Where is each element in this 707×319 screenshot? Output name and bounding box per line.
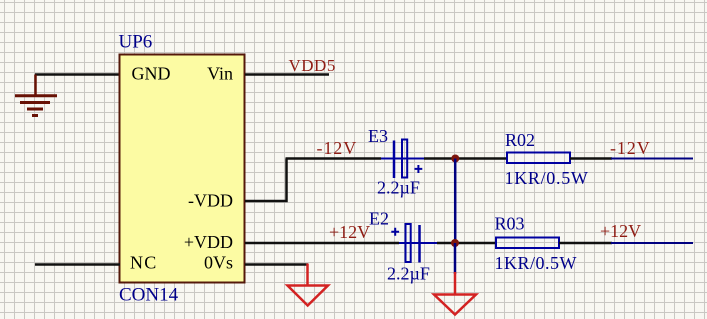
svg-text:-12V: -12V — [317, 138, 358, 158]
svg-text:2.2µF: 2.2µF — [377, 178, 420, 198]
wire Vin to VDD5 — [245, 73, 329, 76]
wire -VDD pin up to -12V row — [245, 159, 287, 202]
wire +12V stub navy — [611, 242, 693, 244]
power ground stem (right) — [454, 272, 457, 294]
wire R02 right — [570, 157, 612, 160]
capacitor E3 — [381, 140, 424, 179]
wire cap E3 to junction to R02 — [424, 157, 507, 160]
svg-text:1KR/0.5W: 1KR/0.5W — [495, 253, 578, 273]
junction node A (dot) — [451, 155, 459, 163]
wire vertical junction link — [454, 159, 457, 244]
resistor R03 — [496, 238, 559, 249]
wire -12V row left segment — [286, 157, 382, 160]
svg-text:-VDD: -VDD — [188, 191, 233, 211]
ground — [15, 75, 57, 116]
svg-text:R03: R03 — [495, 214, 525, 234]
wire NC pin — [35, 263, 120, 266]
wire junction B down — [454, 243, 457, 274]
power ground arrow (left) — [288, 286, 329, 306]
svg-text:R02: R02 — [505, 130, 535, 150]
svg-text:+12V: +12V — [600, 221, 641, 241]
wire GND pin to ground — [35, 73, 120, 76]
capacitor E2 — [391, 224, 437, 263]
svg-text:0Vs: 0Vs — [204, 253, 233, 273]
IC UP6 (CON14) body — [120, 55, 245, 283]
svg-text:Vin: Vin — [207, 64, 233, 84]
svg-text:E3: E3 — [368, 126, 388, 146]
svg-text:CON14: CON14 — [119, 285, 179, 306]
svg-text:2.2µF: 2.2µF — [387, 264, 430, 284]
svg-text:VDD5: VDD5 — [289, 56, 336, 75]
wire -12V stub navy — [611, 158, 693, 160]
wire cap E2 to junction to R03 — [437, 242, 496, 245]
wire R03 right — [559, 242, 612, 245]
svg-text:E2: E2 — [369, 209, 389, 229]
wire 0Vs pin — [245, 263, 308, 266]
svg-text:GND: GND — [132, 64, 171, 84]
svg-text:UP6: UP6 — [119, 32, 153, 53]
power ground arrow (right) — [434, 295, 476, 315]
svg-text:NC: NC — [130, 253, 157, 273]
svg-text:-12V: -12V — [610, 138, 651, 158]
power ground stem (left) — [306, 264, 309, 286]
wire +VDD pin to +12V row — [245, 242, 399, 245]
svg-text:+VDD: +VDD — [184, 232, 233, 252]
svg-text:+12V: +12V — [329, 222, 370, 242]
junction node B (dot) — [451, 239, 459, 247]
resistor R02 — [507, 153, 570, 164]
svg-text:1KR/0.5W: 1KR/0.5W — [505, 168, 589, 188]
